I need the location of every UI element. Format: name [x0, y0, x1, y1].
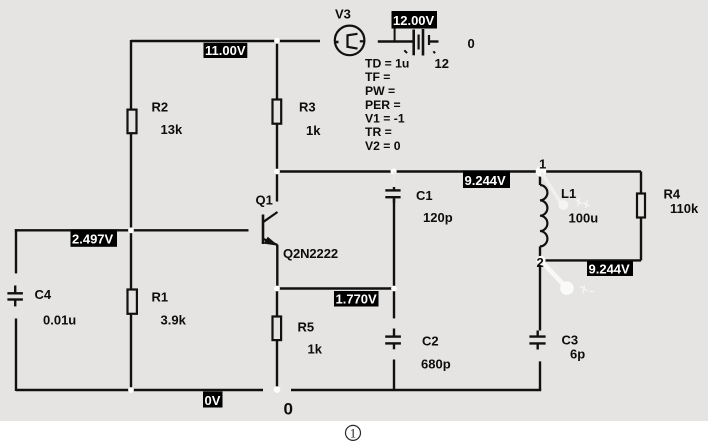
- svg-text:C1: C1: [416, 188, 433, 203]
- svg-text:2: 2: [537, 255, 544, 270]
- base bar: [262, 215, 265, 245]
- resistor R4: [637, 194, 645, 218]
- voltage probe marker sparkles at node 2: [581, 285, 595, 294]
- voltage label 9.244V bottom: [587, 261, 633, 277]
- svg-text:9.244V: 9.244V: [589, 262, 631, 277]
- wire R4 bottom: [640, 217, 642, 260]
- svg-text:3.9k: 3.9k: [161, 313, 187, 328]
- voltage probe marker tip at node 2: [560, 281, 574, 295]
- resistor R1: [128, 290, 137, 314]
- junction node 2 (white dot): [536, 256, 545, 265]
- svg-text:9.244V: 9.244V: [465, 173, 507, 188]
- junction collector rail / R3: [274, 169, 280, 175]
- voltage label 12.00V: [392, 11, 438, 41]
- svg-text:TF =: TF =: [365, 70, 390, 84]
- wire R2 to node: [130, 133, 132, 230]
- wire emitter rail: [277, 287, 394, 289]
- junction bottom rail / R1: [128, 387, 134, 393]
- svg-text:V2 = 0: V2 = 0: [365, 139, 401, 153]
- resistor R2: [128, 110, 137, 134]
- wire left branch top: [15, 229, 17, 273]
- wire R2 branch: [130, 40, 132, 110]
- svg-text:13k: 13k: [161, 122, 183, 137]
- wire bottom rail left: [16, 389, 263, 391]
- wire R3 top: [276, 40, 278, 100]
- emitter diagonal: [264, 239, 278, 245]
- svg-text:1.770V: 1.770V: [336, 292, 378, 307]
- svg-text:12: 12: [435, 56, 449, 71]
- svg-text:2.497V: 2.497V: [72, 232, 114, 247]
- svg-text:110k: 110k: [670, 201, 699, 216]
- wire V3 to battery: [378, 40, 413, 42]
- svg-text:R1: R1: [152, 290, 169, 305]
- junction emitter / R5 / emitter rail: [274, 286, 280, 292]
- wire bottom rail right: [291, 389, 541, 391]
- svg-text:R4: R4: [664, 187, 681, 202]
- collector diagonal: [264, 212, 278, 222]
- voltage label 2.497V: [71, 230, 118, 247]
- inductor L1: [540, 185, 547, 246]
- svg-text:Q1: Q1: [256, 193, 273, 208]
- wire R1 top: [130, 230, 132, 290]
- transistor Q1: [263, 212, 278, 245]
- junction bottom rail / R5 (ground node): [274, 386, 281, 393]
- svg-text:1: 1: [539, 157, 546, 172]
- svg-text:PER =: PER =: [365, 98, 401, 112]
- white wire C1 top: [393, 172, 395, 188]
- wire C3 to bottom rail: [539, 361, 541, 390]
- resistor R3: [273, 100, 282, 124]
- svg-text:C2: C2: [422, 334, 439, 349]
- svg-text:V3: V3: [335, 7, 351, 22]
- svg-text:V1 = -1: V1 = -1: [365, 112, 405, 126]
- svg-text:0.01u: 0.01u: [43, 313, 76, 328]
- svg-text:Q2N2222: Q2N2222: [283, 246, 338, 261]
- svg-text:1: 1: [350, 427, 356, 441]
- voltage label 1.770V: [334, 291, 379, 307]
- capacitor C3 symbol: [529, 331, 545, 350]
- wire C2 top: [393, 289, 395, 319]
- battery V4 (12V DC): [404, 29, 435, 56]
- wire left branch bottom: [15, 319, 17, 392]
- wire emitter vertical: [276, 245, 278, 289]
- voltage probe marker sparkles at node 1: [576, 198, 590, 209]
- svg-text:R3: R3: [299, 100, 316, 115]
- voltage label 0V: [203, 392, 223, 409]
- wire collector rail: [277, 170, 641, 172]
- svg-text:0: 0: [284, 400, 293, 419]
- svg-text:120p: 120p: [423, 210, 453, 225]
- voltage probe marker body at node 2: [542, 262, 564, 285]
- wire R5 top: [276, 289, 278, 318]
- emitter arrow: [264, 237, 279, 246]
- svg-text:0: 0: [468, 36, 475, 51]
- wire R4 top: [640, 172, 642, 195]
- wire L1 bottom stub: [539, 246, 541, 260]
- svg-text:TD = 1u: TD = 1u: [365, 57, 409, 71]
- svg-text:C4: C4: [35, 287, 52, 302]
- svg-text:6p: 6p: [570, 347, 585, 362]
- svg-text:1k: 1k: [306, 123, 321, 138]
- wire L1 top stub: [539, 172, 541, 186]
- svg-text:680p: 680p: [421, 357, 451, 372]
- pulse source parameters: [365, 57, 409, 154]
- junction emitter rail / C1-C2 branch: [391, 286, 397, 292]
- svg-text:R5: R5: [298, 320, 315, 335]
- voltage label 9.244V top: [463, 171, 510, 189]
- svg-text:C3: C3: [562, 333, 579, 348]
- resistor R5: [273, 317, 282, 341]
- junction base wire / R2-R1 branch: [128, 227, 134, 233]
- svg-text:R2: R2: [152, 100, 169, 115]
- voltage probe marker body at node 1: [542, 173, 561, 203]
- svg-text:11.00V: 11.00V: [205, 43, 246, 58]
- wire battery right lead: [429, 40, 439, 42]
- wire node2 to C3: [539, 260, 541, 330]
- wire lower right rail: [541, 259, 641, 261]
- wire collector stub: [276, 172, 278, 202]
- wire R5 bottom: [276, 340, 278, 391]
- svg-text:L1: L1: [561, 186, 576, 201]
- junction collector rail / C1 branch: [391, 168, 397, 174]
- voltage label 11.00V: [204, 43, 248, 58]
- svg-text:PW =: PW =: [365, 84, 395, 98]
- junction top wire / R3 branch: [274, 38, 280, 44]
- wire base rail: [15, 229, 249, 231]
- svg-text:TR =: TR =: [365, 125, 392, 139]
- capacitor C2 symbol: [385, 329, 401, 350]
- wire top rail: [131, 40, 320, 42]
- capacitor C4 symbol: [7, 286, 23, 307]
- capacitor C1 symbol: [385, 187, 400, 203]
- wire C2 to bottom rail: [393, 360, 395, 391]
- voltage probe marker tip at node 1: [558, 200, 568, 210]
- source V3: [335, 26, 365, 56]
- wire R3 bottom: [276, 124, 278, 172]
- svg-text:0V: 0V: [205, 393, 221, 408]
- wire C1 to C2: [393, 199, 395, 289]
- wire R1 bottom: [130, 314, 132, 391]
- svg-text:12.00V: 12.00V: [393, 13, 435, 28]
- svg-text:1k: 1k: [308, 342, 323, 357]
- junction node 1 (white dot): [536, 166, 547, 177]
- svg-text:100u: 100u: [569, 211, 599, 226]
- figure number circled 1: [346, 425, 361, 440]
